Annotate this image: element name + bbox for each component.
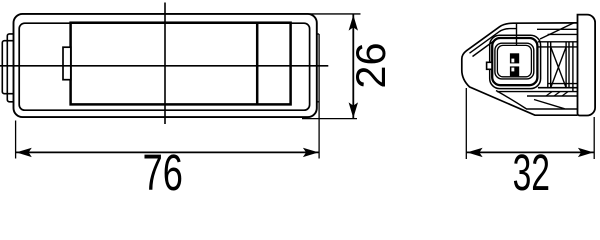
arrow 76 right <box>303 148 319 157</box>
dimension 76: right extension line (merged with right tab edge) <box>318 34 320 159</box>
side view: connector body <box>492 38 537 85</box>
front view: horizontal centerline <box>0 65 328 67</box>
front view: inner housing outline <box>19 23 309 110</box>
arrow 26 top <box>349 15 358 31</box>
side view: bracket column 1 <box>547 42 549 88</box>
side view: bracket bottom rail 3 <box>527 95 578 97</box>
dimension 32: right extension line <box>593 117 595 159</box>
side view: top band diagonal <box>540 23 574 39</box>
side view: bracket column 2 <box>565 42 567 88</box>
side view: bracket top rail 1 <box>538 41 578 43</box>
side view: bracket top rail 2 <box>538 46 578 48</box>
svg-text:76: 76 <box>143 145 183 191</box>
arrow 76 left <box>16 148 32 157</box>
dimension 26: dimension line <box>352 14 354 118</box>
dimension 26: bottom extension line <box>302 118 357 120</box>
side view: connector cavity outer <box>495 43 534 79</box>
side view: bracket bottom rail 1 <box>548 83 578 85</box>
svg-text:32: 32 <box>513 145 550 191</box>
side view: connector top tick <box>516 23 518 45</box>
svg-text:26: 26 <box>347 42 394 88</box>
side view: connector outer ring <box>490 35 541 88</box>
dimension 26: top extension line <box>310 13 361 15</box>
side view: pin 2 notch <box>511 68 514 72</box>
side view: housing bar <box>578 15 596 116</box>
side view: clip X cross <box>551 47 566 88</box>
side view: inner slope second line <box>473 39 497 57</box>
front view: vertical centerline <box>164 3 166 125</box>
side view: bottom hatch marks <box>546 92 552 96</box>
arrow 26 bottom <box>349 102 358 118</box>
side view: connector pin 2 <box>510 66 519 76</box>
side view: bottom inner curve <box>496 91 578 110</box>
side view: outer profile contour <box>462 23 578 115</box>
side view: connector left tab <box>487 62 492 69</box>
side view: top band line 1 <box>537 28 578 30</box>
side view: connector pin 1 <box>510 53 519 63</box>
dimension 32: dimension line <box>466 151 594 153</box>
side view: pin 1 notch <box>511 59 514 63</box>
front view: lens stub tab <box>63 47 71 79</box>
front view: lens rectangle <box>71 23 291 105</box>
side view: inner profile line <box>470 29 517 54</box>
dimension 76: dimension line <box>16 151 320 153</box>
arrow 32 right <box>578 148 594 157</box>
front view: right bracket tab edge <box>317 33 319 35</box>
front view: outer housing outline <box>14 14 317 117</box>
dimension 76: left extension line <box>15 121 17 159</box>
side view: bracket column 3 <box>572 42 574 92</box>
arrow 32 left <box>467 148 483 157</box>
front view: left bracket middle tab <box>7 34 13 102</box>
front view: left bracket outer tab <box>2 41 13 94</box>
side view: bracket bottom rail 2 <box>497 91 578 93</box>
dimension 32: left extension line <box>465 88 467 159</box>
front view: lens divider line <box>256 23 259 105</box>
side view: connector cavity inner <box>497 45 531 76</box>
side view: top band lower line <box>548 33 578 35</box>
